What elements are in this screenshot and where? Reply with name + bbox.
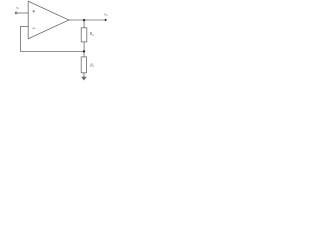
wire feedback vertical left [19,26,21,51]
node vi input terminal [15,12,17,14]
wire output [69,19,106,21]
wire feedback node to R1 [83,52,85,57]
node vo output terminal [105,19,107,21]
wire junction to R top [83,20,85,28]
op-amp plus pin label [32,10,35,13]
op-amp U1 [28,1,69,39]
svg-text:vi: vi [16,6,19,11]
wire R1 to ground [83,73,85,79]
svg-text:R1: R1 [89,62,94,68]
wire R2 to feedback node [83,42,85,52]
svg-text:R2: R2 [89,31,94,37]
op-amp minus pin label [32,27,35,29]
node output junction [83,19,85,21]
wire input to + [17,12,28,14]
node feedback junction [83,50,85,52]
wire feedback horizontal [20,51,84,53]
resistor R1 [81,57,86,73]
svg-text:vo: vo [104,11,108,17]
ground [81,77,87,81]
resistor R2 [81,28,87,42]
wire minus input [20,25,28,27]
